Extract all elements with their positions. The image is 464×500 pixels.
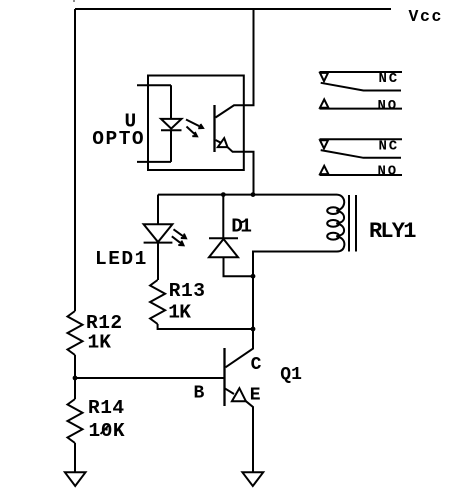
- svg-text:B: B: [194, 384, 205, 404]
- svg-text:R14: R14: [88, 397, 125, 419]
- svg-text:NO: NO: [378, 164, 398, 180]
- svg-text:C: C: [251, 355, 262, 375]
- svg-text:1K: 1K: [88, 331, 112, 353]
- svg-text:NC: NC: [379, 139, 399, 155]
- svg-text:Vcc: Vcc: [409, 7, 444, 26]
- svg-text:OPTO: OPTO: [92, 128, 145, 150]
- svg-text:10K: 10K: [89, 420, 126, 442]
- svg-text:R13: R13: [169, 280, 206, 302]
- svg-text:RLY1: RLY1: [369, 219, 416, 244]
- svg-text:NO: NO: [378, 98, 398, 114]
- svg-text:1K: 1K: [168, 302, 191, 324]
- svg-text:D1: D1: [231, 215, 251, 237]
- svg-text:LED1: LED1: [95, 248, 148, 270]
- svg-text:NC: NC: [379, 71, 399, 87]
- svg-text:Q1: Q1: [280, 365, 302, 385]
- svg-text:E: E: [250, 385, 261, 405]
